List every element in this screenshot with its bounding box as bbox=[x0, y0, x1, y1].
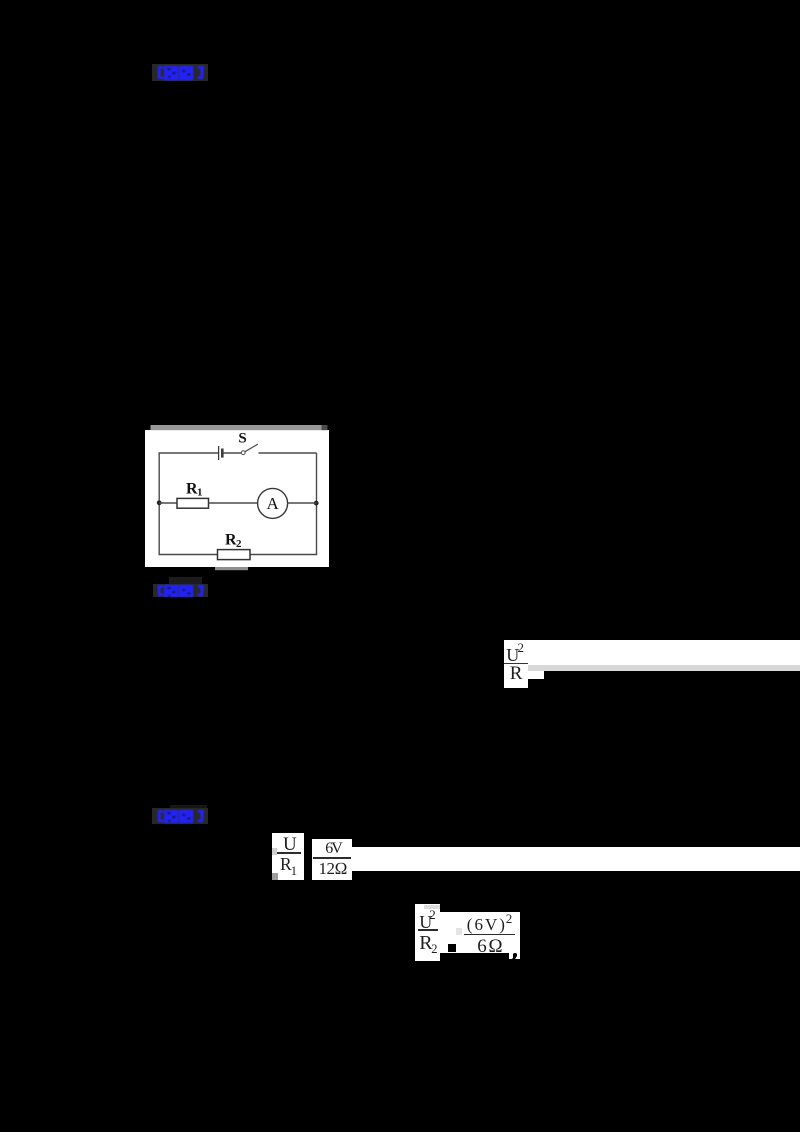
switch S pivot circle bbox=[241, 451, 245, 455]
12ohm denominator bbox=[319, 860, 348, 877]
exponent 2 bbox=[518, 641, 525, 654]
R denominator bbox=[510, 664, 523, 683]
equation line 3: P2 = U^2/R2 = (6V)^2/6Omega bbox=[415, 904, 440, 961]
equation line 1: P = U^2/R with white line highlight bbox=[504, 640, 800, 665]
exponent 2 bbox=[429, 908, 436, 921]
fraction bar bbox=[464, 934, 515, 936]
equals blob bbox=[448, 944, 456, 952]
gray top bar bbox=[151, 425, 322, 430]
battery cell: short thick plate bbox=[221, 449, 224, 458]
6ohm denominator bbox=[477, 937, 504, 956]
circuit figure bbox=[140, 420, 335, 575]
wire: outer loop right vertical bbox=[316, 453, 318, 555]
wire: ammeter to right node bbox=[288, 502, 317, 504]
wire: battery to switch bbox=[224, 452, 242, 454]
wire: left node to R1 bbox=[159, 502, 177, 504]
svg-text:A: A bbox=[266, 494, 279, 513]
(6V) numerator bbox=[467, 916, 507, 933]
wire: R1 to ammeter bbox=[209, 502, 258, 504]
fraction bar bbox=[504, 663, 527, 664]
exponent 2 bbox=[506, 912, 513, 925]
6V numerator bbox=[325, 841, 341, 857]
label box 3 (blue 【详解】 highlight) bbox=[170, 805, 207, 808]
gray smudge left of (6V) bbox=[456, 928, 462, 935]
gray smudge below figure bbox=[215, 567, 248, 570]
R2 denominator bbox=[419, 933, 432, 953]
comma bbox=[513, 953, 517, 956]
equation line 2: I = U/R1 = 6V/12Omega with white line highlight bbox=[272, 833, 305, 880]
gray top bar dark tail bbox=[322, 425, 328, 430]
fraction bar bbox=[313, 857, 351, 859]
label box 1 (blue 【答案】 highlight) bbox=[152, 64, 208, 81]
fraction bar bbox=[418, 929, 438, 931]
comma corner patch bbox=[509, 953, 520, 959]
svg-text:1: 1 bbox=[197, 486, 203, 498]
white figure background bbox=[145, 430, 329, 567]
node: right junction dot bbox=[314, 501, 319, 506]
resistor R2 box bbox=[218, 550, 251, 560]
label box 2 (blue 【解析】 highlight) bbox=[169, 577, 203, 585]
fraction bar bbox=[277, 852, 301, 854]
battery cell: long plate bbox=[218, 446, 220, 460]
switch S lever bbox=[245, 444, 258, 452]
white line band bbox=[352, 847, 800, 871]
svg-text:2: 2 bbox=[236, 538, 242, 550]
wire: switch to right corner bbox=[259, 452, 317, 454]
wire: outer loop left vertical bbox=[158, 453, 160, 555]
R1 denominator bbox=[280, 856, 292, 874]
wire: top left segment to battery bbox=[159, 452, 219, 454]
wire: bottom bbox=[159, 554, 318, 556]
U numerator bbox=[283, 835, 297, 854]
right white patch of equation 3 bbox=[440, 912, 520, 953]
U numerator bbox=[419, 913, 432, 931]
resistor R1 box bbox=[177, 498, 209, 508]
U numerator bbox=[506, 646, 519, 664]
6V/12ohm fraction box bbox=[312, 839, 352, 880]
node: left junction dot bbox=[157, 500, 162, 505]
svg-text:S: S bbox=[238, 431, 246, 447]
ammeter A circle bbox=[258, 488, 288, 518]
